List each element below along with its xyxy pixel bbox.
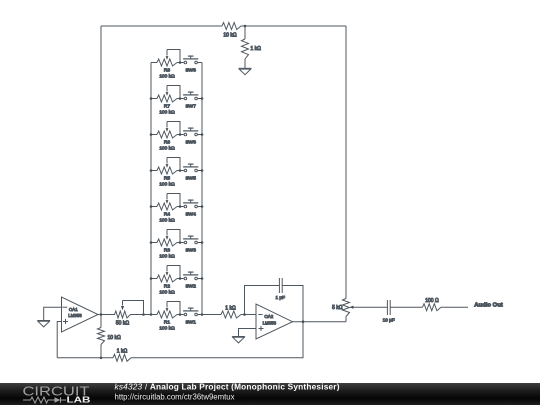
node left rail junction y=206.5	[150, 205, 153, 208]
ground (OA1 input)	[37, 321, 50, 327]
wire feedback up/left	[245, 286, 280, 315]
svg-text:R6: R6	[164, 140, 170, 146]
wire bottom rail (left segment)	[57, 357, 113, 359]
svg-text:SW8: SW8	[185, 68, 196, 74]
footer bar	[0, 383, 540, 405]
wire 50 kΩ to ladder	[131, 314, 152, 316]
wire SW8 to right rail	[198, 62, 202, 64]
svg-text:R1: R1	[164, 320, 170, 326]
wire R6 to junction	[177, 134, 184, 136]
svg-text:100 kΩ: 100 kΩ	[159, 254, 175, 260]
wire 10 µF to 100 Ω	[390, 306, 422, 308]
svg-text:LM358: LM358	[68, 313, 82, 318]
node right rail junction y=134.5	[201, 133, 204, 136]
svg-text:100 kΩ: 100 kΩ	[159, 182, 175, 188]
node OA1 output junction	[100, 313, 103, 316]
svg-text:Audio Out: Audio Out	[474, 303, 503, 309]
svg-text:100 kΩ: 100 kΩ	[159, 110, 175, 116]
wire 5 kΩ bottom to output	[345, 317, 347, 322]
op-amp OA2 LM358	[256, 304, 293, 339]
wire 5 kΩ wiper to 10 µF	[354, 306, 388, 308]
svg-text:1 kΩ: 1 kΩ	[225, 305, 236, 311]
switch SW5 (push button)	[183, 164, 198, 182]
wire row R6 left stub	[151, 134, 157, 136]
wire R3 to junction	[177, 242, 184, 244]
wire OA2 non-inverting input to ground	[239, 329, 257, 337]
resistor 10 kΩ (top feedback)	[222, 23, 241, 39]
wire OA1 inverting input to ground	[44, 307, 62, 320]
resistor 1 kΩ (top divider)	[242, 39, 262, 59]
svg-text:http://circuitlab.com/ctr36tw9: http://circuitlab.com/ctr36tw9emtux	[115, 393, 235, 402]
node junction R3/SW3	[179, 241, 182, 244]
switch SW6 (push button)	[183, 128, 198, 146]
svg-text:100 kΩ: 100 kΩ	[159, 146, 175, 152]
svg-text:100 kΩ: 100 kΩ	[159, 290, 175, 296]
wire R2 to junction	[177, 278, 184, 280]
wire R5 to junction	[177, 170, 184, 172]
wire to top ground	[244, 59, 246, 68]
resistor 1 kΩ (feedback)	[113, 349, 131, 362]
node junction R5/SW5	[179, 169, 182, 172]
wire SW3 to right rail	[198, 242, 202, 244]
node right rail junction y=98.5	[201, 97, 204, 100]
svg-text:SW2: SW2	[185, 284, 196, 290]
wire R8 to junction	[177, 62, 184, 64]
ground (top divider)	[239, 68, 252, 74]
wire row R8 left stub	[151, 62, 157, 64]
resistor 10 kΩ (divider to feedback)	[98, 328, 121, 345]
footer url text	[115, 393, 235, 402]
wire OA1 output down	[100, 315, 102, 328]
svg-text:OA2: OA2	[264, 314, 273, 319]
wire row R5 left stub	[151, 170, 157, 172]
svg-text:1 kΩ: 1 kΩ	[251, 46, 262, 52]
node junction R8/SW8	[179, 61, 182, 64]
potentiometer R4 100 kΩ	[157, 194, 180, 224]
wire ladder to 1 kΩ	[202, 314, 221, 316]
switch SW8 (push button)	[183, 56, 198, 74]
svg-text:100 kΩ: 100 kΩ	[159, 326, 175, 332]
node right rail junction y=278.5	[201, 277, 204, 280]
wire right vertical rail (top to 5 kΩ pot)	[345, 26, 347, 299]
wire row R3 left stub	[151, 242, 157, 244]
wire row R2 left stub	[151, 278, 157, 280]
potentiometer R5 100 kΩ	[157, 158, 180, 188]
node junction top divider	[244, 25, 247, 28]
node junction R6/SW6	[179, 133, 182, 136]
node left rail junction y=134.5	[150, 133, 153, 136]
wire row R7 left stub	[151, 98, 157, 100]
node 50 kΩ wiper junction	[142, 313, 145, 316]
wire feedback right/down	[282, 286, 303, 322]
switch SW3 (push button)	[183, 236, 198, 254]
wire R4 to junction	[177, 206, 184, 208]
svg-text:SW5: SW5	[185, 176, 196, 182]
node OA2 inverting input junction	[243, 313, 246, 316]
wire OA1 non-inverting input to feedback rail	[57, 322, 61, 358]
svg-text:SW4: SW4	[185, 212, 196, 218]
svg-text:1 kΩ: 1 kΩ	[117, 349, 128, 355]
node OA2 output junction	[302, 320, 305, 323]
node bottom rail junction	[100, 357, 103, 360]
svg-text:R4: R4	[164, 212, 170, 218]
potentiometer R2 100 kΩ	[157, 266, 180, 296]
wire SW6 to right rail	[198, 134, 202, 136]
svg-text:SW7: SW7	[185, 104, 196, 110]
svg-text:SW1: SW1	[185, 320, 196, 326]
node left rail junction y=170.5	[150, 169, 153, 172]
node left rail junction y=242.5	[150, 241, 153, 244]
wire top rail (right segment)	[241, 25, 346, 27]
svg-text:R8: R8	[164, 68, 170, 74]
node left rail bottom junction	[150, 313, 153, 316]
potentiometer R1 100 kΩ	[157, 302, 180, 332]
wire 10 kΩ to bottom rail	[100, 345, 102, 358]
potentiometer R3 100 kΩ	[157, 230, 180, 260]
svg-text:R5: R5	[164, 176, 170, 182]
wire 1 kΩ divider stub	[244, 26, 246, 39]
CircuitLab logo	[23, 383, 91, 404]
svg-text:10 kΩ: 10 kΩ	[223, 33, 236, 39]
switch SW1 (push button)	[183, 308, 198, 326]
svg-text:ks4323 / Analog Lab Project (M: ks4323 / Analog Lab Project (Monophonic …	[115, 382, 340, 392]
resistor 100 Ω (output)	[423, 298, 442, 311]
wire R1 to junction	[177, 314, 184, 316]
svg-text:100 kΩ: 100 kΩ	[159, 74, 175, 80]
node Audio Out	[474, 303, 503, 309]
footer title text	[115, 382, 340, 392]
op-amp OA1 LM358	[62, 297, 99, 332]
node junction R2/SW2	[179, 277, 182, 280]
node junction R1/SW1	[179, 313, 182, 316]
potentiometer R7 100 kΩ	[157, 86, 180, 116]
potentiometer R8 100 kΩ	[157, 50, 180, 80]
wire SW2 to right rail	[198, 278, 202, 280]
svg-text:SW6: SW6	[185, 140, 196, 146]
svg-text:50 kΩ: 50 kΩ	[116, 321, 129, 327]
svg-text:SW3: SW3	[185, 248, 196, 254]
wire ladder right rail	[201, 63, 203, 315]
switch SW4 (push button)	[183, 200, 198, 218]
node junction R7/SW7	[179, 97, 182, 100]
svg-text:10 µF: 10 µF	[383, 318, 395, 323]
wire 100 Ω to Audio Out	[441, 306, 468, 308]
wire SW4 to right rail	[198, 206, 202, 208]
node right rail junction y=242.5	[201, 241, 204, 244]
svg-text:5 kΩ: 5 kΩ	[332, 305, 343, 311]
wire row R4 left stub	[151, 206, 157, 208]
wire SW1 to right rail	[198, 314, 202, 316]
svg-text:R2: R2	[164, 284, 170, 290]
node junction R4/SW4	[179, 205, 182, 208]
wire top rail (left segment)	[101, 25, 222, 27]
wire SW5 to right rail	[198, 170, 202, 172]
wire left vertical rail (OA1 output to top)	[100, 26, 102, 315]
switch SW7 (push button)	[183, 92, 198, 110]
node right rail junction y=170.5	[201, 169, 204, 172]
svg-text:R3: R3	[164, 248, 170, 254]
svg-text:100 Ω: 100 Ω	[425, 298, 439, 304]
node right rail bottom junction	[201, 313, 204, 316]
svg-text:LM358: LM358	[263, 320, 277, 325]
svg-text:1 µF: 1 µF	[275, 295, 285, 300]
node left rail junction y=98.5	[150, 97, 153, 100]
resistor 1 kΩ (input to OA2)	[221, 305, 241, 318]
svg-text:R7: R7	[164, 104, 170, 110]
node left rail junction y=278.5	[150, 277, 153, 280]
wire R7 to junction	[177, 98, 184, 100]
wire 1 kΩ to OA2 inverting input	[241, 314, 256, 316]
potentiometer R6 100 kΩ	[157, 122, 180, 152]
wire OA2 output	[293, 321, 347, 323]
switch SW2 (push button)	[183, 272, 198, 290]
wire bottom rail (right segment)	[131, 322, 303, 358]
potentiometer 5 kΩ (volume)	[332, 299, 353, 317]
wire OA1 output	[98, 314, 115, 316]
wire ladder left rail	[150, 63, 152, 315]
capacitor 1 µF	[275, 278, 285, 300]
ground (OA2 input)	[232, 337, 245, 343]
svg-text:100 kΩ: 100 kΩ	[159, 218, 175, 224]
capacitor 10 µF	[383, 300, 395, 323]
svg-text:OA1: OA1	[69, 307, 78, 312]
wire row R1 left stub	[151, 314, 157, 316]
potentiometer 50 kΩ	[115, 301, 144, 327]
svg-text:LAB: LAB	[67, 395, 91, 405]
wire SW7 to right rail	[198, 98, 202, 100]
svg-text:10 kΩ: 10 kΩ	[108, 335, 121, 341]
node right rail junction y=206.5	[201, 205, 204, 208]
